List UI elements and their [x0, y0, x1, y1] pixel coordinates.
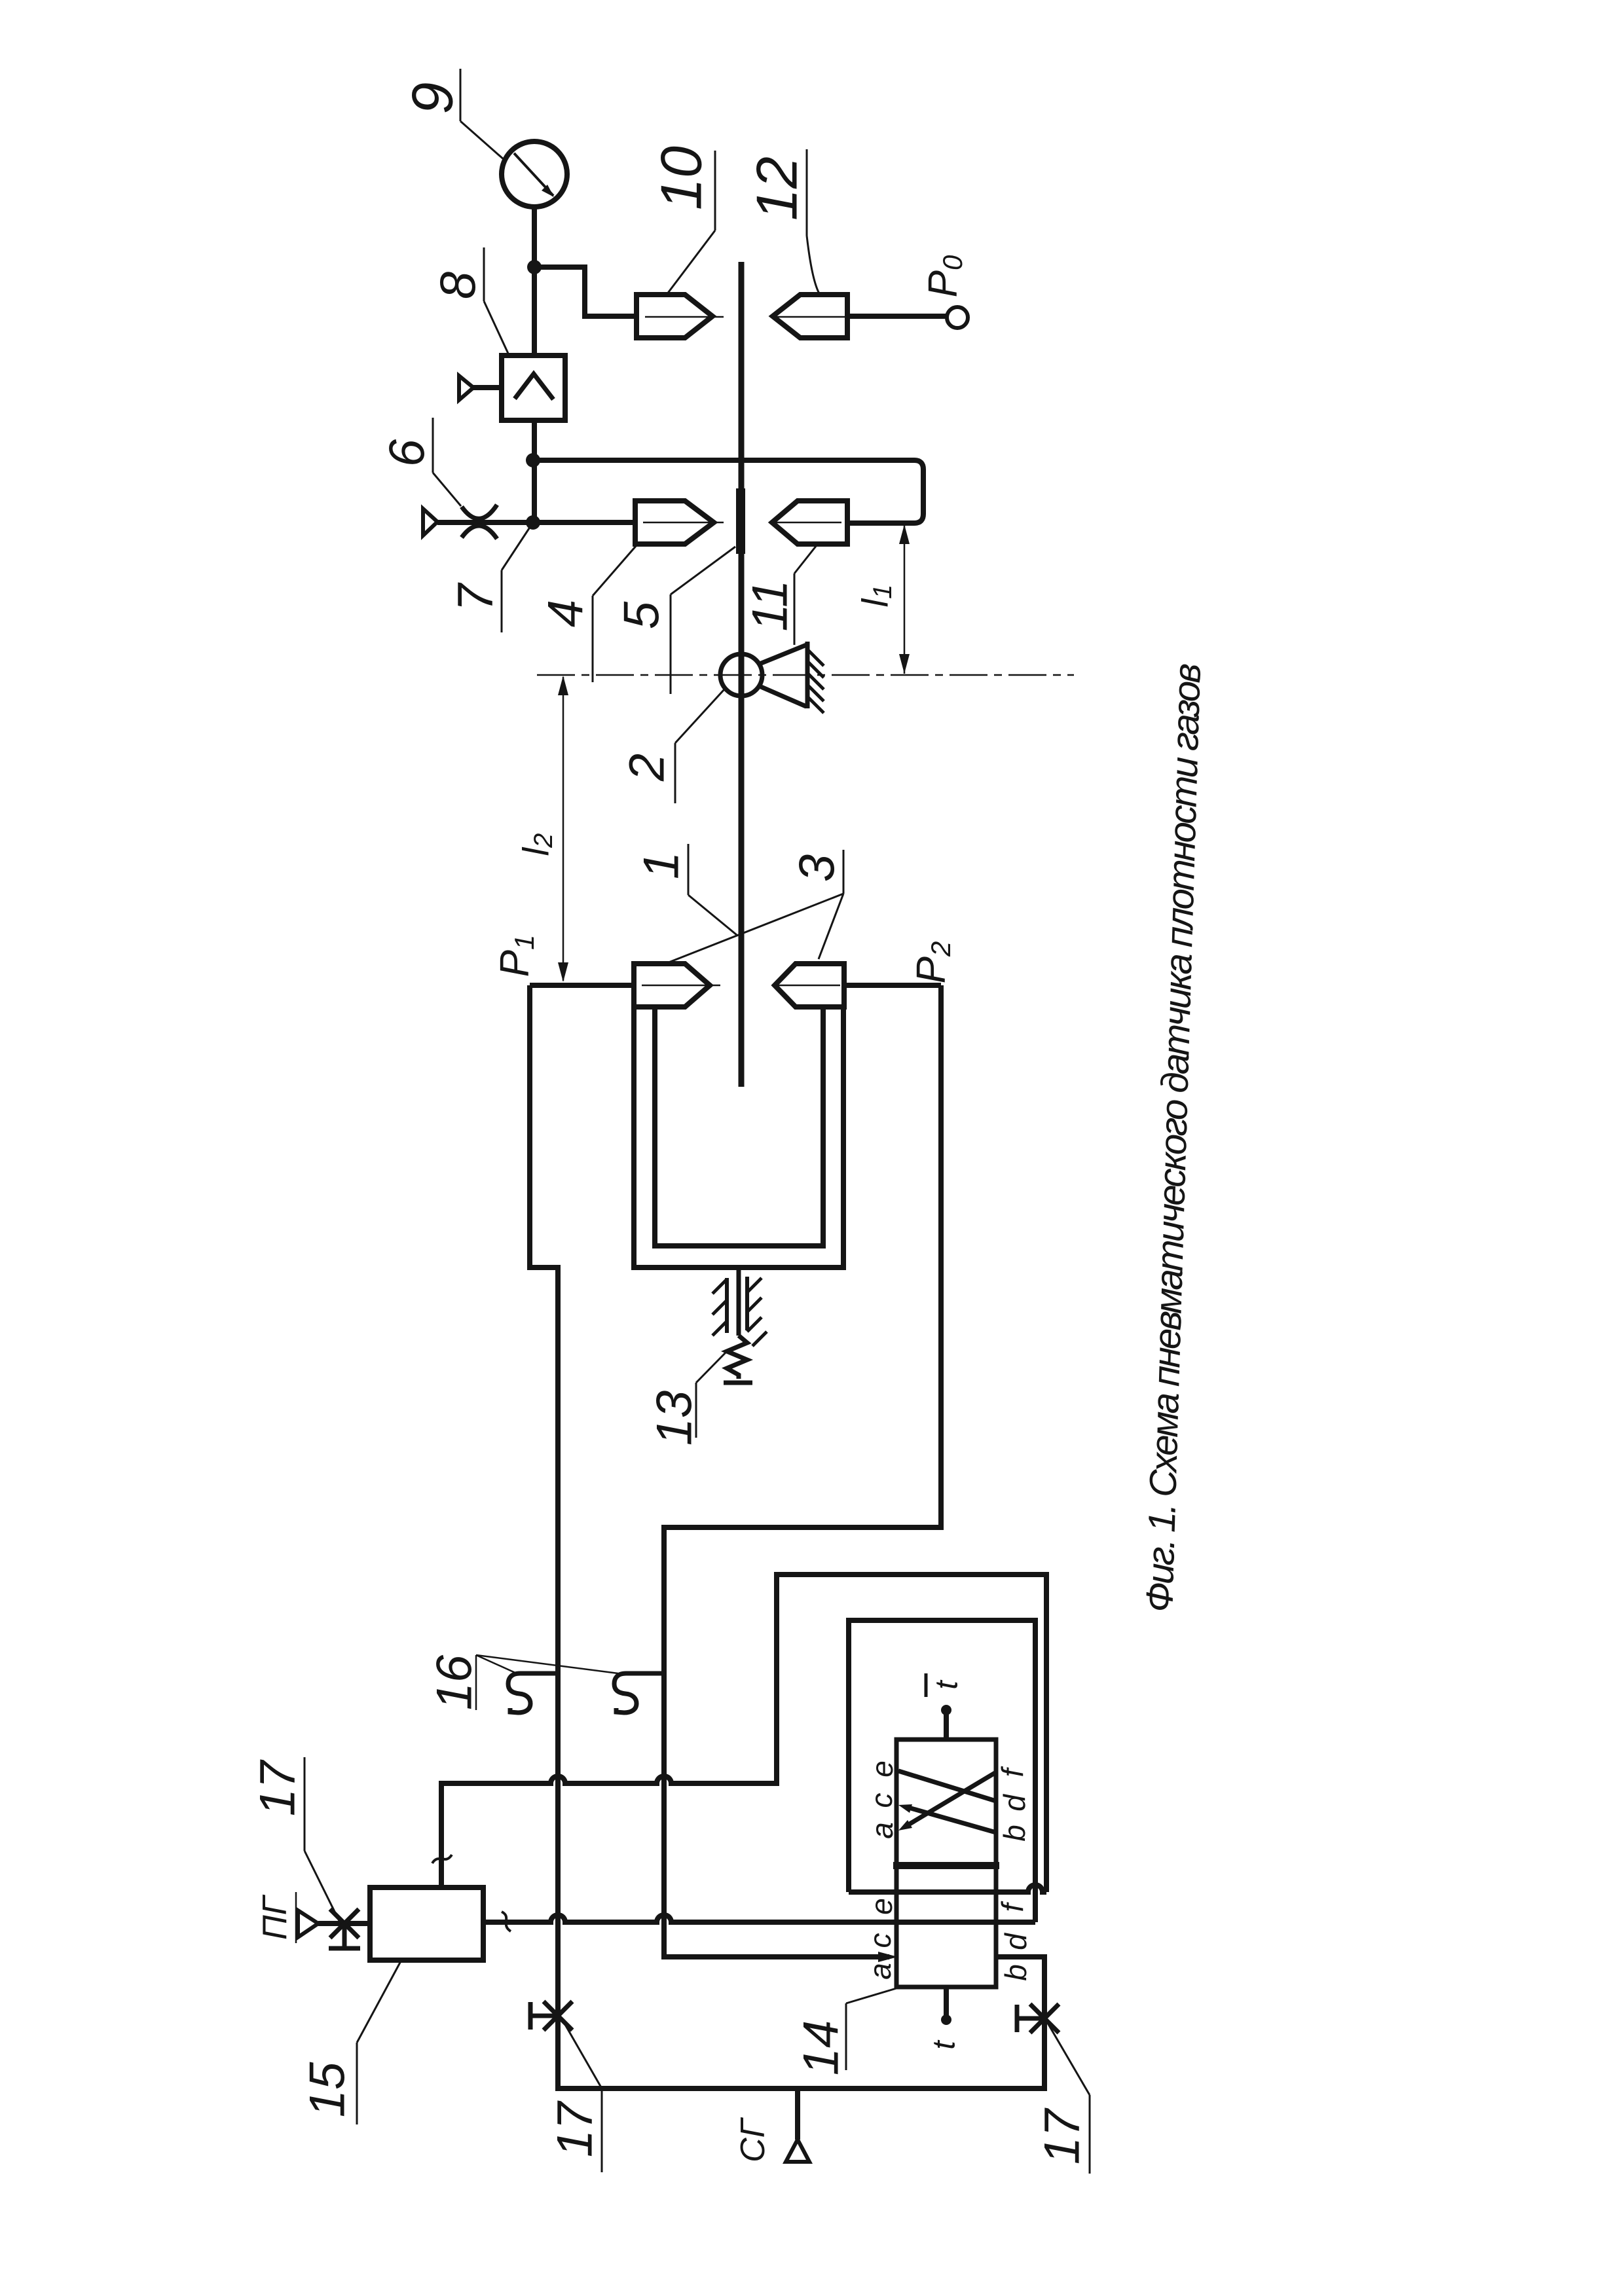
channel arrows at ports — [898, 1820, 912, 1831]
label 17 (upper left) with leader — [250, 1757, 340, 1921]
wire P2 pipe (right riser, across, down to port a line) — [664, 985, 941, 1957]
svg-text:2: 2 — [619, 754, 675, 782]
vent triangle of regulator 8 — [459, 376, 502, 400]
long wire from junction down-right to nozzle 11 — [533, 460, 923, 523]
label 8 with leader — [431, 247, 509, 355]
thin axis line of nozzles 1/3 — [642, 985, 840, 987]
wire inner loop (left edge, top, right edge to port d) — [849, 1620, 1035, 1922]
svg-text:d: d — [997, 1794, 1031, 1812]
junction node below regulator 8 — [526, 453, 540, 467]
nozzle 10 — [637, 295, 712, 338]
label 17 (bottom right) with leader — [1035, 2024, 1090, 2174]
label 6 with leader — [380, 418, 462, 506]
svg-text:11: 11 — [743, 580, 798, 632]
label 1 with leader — [634, 844, 737, 935]
fixed support of pivot — [760, 642, 824, 713]
holder frame outer wall — [634, 1007, 843, 1267]
shut-off valve 17 on left riser — [530, 2001, 572, 2030]
label 9 with leader — [400, 69, 506, 160]
wire: supply pipe from gauge down to nozzle line — [532, 206, 537, 522]
svg-text:15: 15 — [300, 2062, 356, 2117]
label 11 with leader — [743, 545, 817, 645]
svg-text:c: c — [864, 1793, 898, 1808]
distributor valve 14 body — [896, 1740, 996, 1987]
pivot 2 — [720, 654, 762, 696]
shut-off valve 17 on right riser — [1017, 2004, 1059, 2033]
svg-text:17: 17 — [1035, 2107, 1090, 2164]
svg-text:СГ: СГ — [734, 2117, 772, 2162]
svg-text:8: 8 — [431, 272, 487, 299]
wire P1 pipe (left riser with jog, down to bottom bus, up right riser to port b) — [530, 985, 1044, 2088]
label 14 with leader — [794, 1988, 897, 2075]
pipe break mark on box 15 top wire — [432, 1855, 452, 1863]
nozzle 1 — [634, 964, 710, 1007]
label 4 with leader — [538, 545, 637, 682]
label 13 with leader — [647, 1351, 728, 1446]
label 3 with fork leader to both nozzles — [669, 850, 845, 962]
wire P2 pipe from nozzle 3 — [844, 983, 941, 988]
svg-text:13: 13 — [647, 1391, 703, 1446]
svg-text:17: 17 — [250, 1759, 306, 1816]
nozzle 3 — [775, 964, 844, 1007]
port P0 terminal — [947, 307, 968, 328]
wire inlet to box 15 — [318, 1921, 370, 1926]
control port t (bottom) — [944, 1987, 949, 2018]
wire P1 pipe to nozzle 1 — [530, 983, 634, 988]
port letters a c e (upper set) — [863, 1760, 1033, 1981]
elastic coil 16 on P2 pipe — [614, 1673, 664, 1713]
nozzle 4 — [635, 501, 714, 544]
svg-text:c: c — [863, 1933, 897, 1948]
junction node at nozzle 4 line — [526, 515, 540, 530]
svg-text:9: 9 — [400, 82, 465, 115]
wire vent to nozzle 4 — [437, 520, 635, 525]
control port t-bar (top) — [944, 1712, 949, 1740]
svg-text:t: t — [927, 2040, 962, 2050]
calibration gas inlet triangle — [298, 1910, 318, 1937]
svg-text:e: e — [864, 1898, 898, 1915]
svg-text:a: a — [865, 1822, 899, 1839]
crossed channel lines in valve 14 — [898, 1771, 996, 1832]
shut-off valve 17 at calibration inlet — [329, 1909, 360, 1948]
dimension l2 — [515, 676, 569, 982]
svg-text:4: 4 — [538, 600, 594, 627]
svg-text:16: 16 — [427, 1654, 483, 1710]
wire from junction to nozzle 10 — [534, 267, 637, 316]
svg-text:7: 7 — [448, 582, 504, 611]
junction node on gauge pipe — [527, 260, 542, 274]
svg-text:a: a — [863, 1963, 897, 1980]
svg-text:17: 17 — [547, 2100, 603, 2157]
thin axis line of nozzles 10/12 — [645, 316, 845, 318]
vent triangle at throttle line — [423, 509, 437, 536]
label 17 (bottom left) with leader — [547, 2022, 603, 2172]
label 2 with leader — [619, 689, 725, 803]
wire e-f line through valve 14 — [849, 1885, 1046, 1892]
arrow into port a of valve 14 — [878, 1952, 898, 1962]
svg-text:3: 3 — [790, 854, 845, 882]
gas analyzer box 15 — [370, 1887, 483, 1960]
label 10 with leader — [649, 146, 716, 295]
label 12 with leader — [745, 149, 821, 295]
svg-text:1: 1 — [634, 852, 690, 879]
label 15 with leader — [300, 1959, 403, 2124]
svg-text:5: 5 — [614, 601, 670, 629]
wire nozzle 12 to port P0 — [847, 314, 947, 319]
throttle valve 6 — [462, 505, 497, 539]
svg-text:b: b — [997, 1825, 1031, 1842]
wire c-d line from box 15 through valve 14 — [483, 1915, 1035, 1922]
pressure gauge 9 — [502, 141, 567, 207]
svg-text:e: e — [865, 1760, 899, 1777]
pipe break mark on box 15 right wire — [502, 1912, 511, 1931]
svg-text:b: b — [999, 1964, 1033, 1981]
spring 13 — [727, 1336, 747, 1379]
label 7 with leader — [448, 524, 532, 632]
dimension l1 — [855, 524, 910, 674]
svg-text:14: 14 — [794, 2020, 849, 2076]
elastic coil 16 on P1 pipe — [508, 1673, 558, 1713]
measuring wire (string) 1 — [739, 262, 745, 1087]
pressure regulator 8 — [502, 355, 565, 420]
svg-text:10: 10 — [649, 146, 714, 210]
mounting rod from holder to wall — [737, 1270, 741, 1336]
fixed wall with hatching — [712, 1277, 767, 1346]
svg-text:t: t — [930, 1680, 965, 1690]
label 16 with fork leaders — [427, 1654, 619, 1710]
divider bar of valve 14 — [893, 1862, 999, 1869]
svg-text:6: 6 — [380, 439, 435, 467]
centerline through pivot (dash-dot) — [537, 674, 1074, 676]
svg-text:ПГ: ПГ — [256, 1894, 294, 1940]
svg-text:12: 12 — [745, 156, 809, 221]
wire from box 15 top up and around to outer loop top — [441, 1575, 1046, 1892]
nozzle 12 (reference pressure) — [773, 295, 847, 338]
label 5 with leader — [614, 547, 736, 694]
nozzle 11 — [772, 501, 847, 544]
svg-text:d: d — [999, 1933, 1033, 1950]
compressed gas supply СГ triangle — [795, 2088, 800, 2140]
thin axis line of nozzles 4/11 — [643, 522, 841, 524]
heated sensing segment 5 on the string — [736, 488, 745, 554]
holder frame inner wall — [655, 1007, 823, 1246]
